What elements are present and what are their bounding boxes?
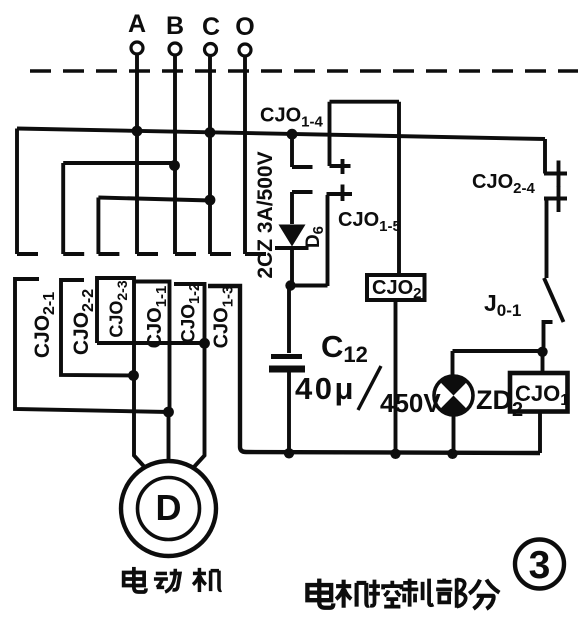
svg-text:2CZ 3A/500V: 2CZ 3A/500V [254,151,277,278]
svg-text:A: A [128,10,146,38]
svg-text:450V: 450V [380,388,441,418]
svg-text:B: B [166,12,184,40]
svg-text:D: D [156,487,182,528]
svg-text:C: C [202,13,220,41]
svg-text:O: O [235,13,254,41]
svg-text:3: 3 [529,544,551,587]
svg-text:40μ: 40μ [295,371,356,406]
